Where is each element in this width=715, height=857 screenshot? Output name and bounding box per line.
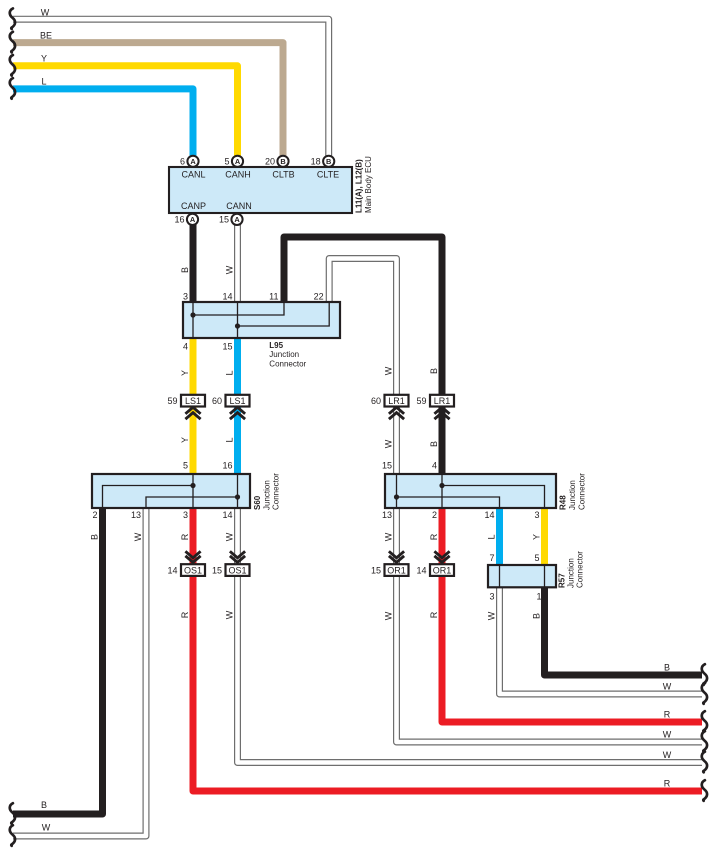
ECU terminal names CANL CANH CLTB CLTE CANP CANN — [181, 169, 339, 211]
wire Y from R48 pin 3 to R57 pin 5 — [541, 508, 548, 565]
svg-text:R: R — [180, 533, 190, 540]
break symbol left, wire W — [10, 8, 15, 29]
wire B from LR1 59 to R48 pin 4 — [439, 407, 446, 475]
wire W from L95 pin 22 to LR1 60 — [329, 259, 396, 396]
wire W from R57 pin 3 to right edge — [500, 587, 703, 694]
break symbol left, wire BE — [10, 32, 15, 53]
svg-text:B: B — [664, 663, 670, 673]
svg-text:3: 3 — [183, 291, 188, 301]
R48 name label Junction Connector (rotated) — [559, 473, 587, 510]
break symbol left, wire B bottom — [10, 803, 15, 824]
svg-text:R57: R57 — [558, 573, 567, 588]
wire W (CANN) ECU pin 15 to L95 pin 14 — [234, 225, 241, 303]
svg-text:OS1: OS1 — [228, 566, 246, 576]
svg-text:16: 16 — [174, 214, 184, 224]
break symbol left, wire L — [10, 78, 15, 99]
svg-text:60: 60 — [212, 396, 222, 406]
wire BE from left edge to ECU pin 20 (CLTB) — [13, 43, 283, 157]
svg-text:W: W — [663, 730, 672, 740]
connector LS1 pin 60 with up chevrons — [212, 395, 250, 419]
svg-text:3: 3 — [534, 510, 539, 520]
svg-text:60: 60 — [371, 396, 381, 406]
svg-text:2: 2 — [432, 510, 437, 520]
wire Y from L95 pin 4 to LS1 59 — [190, 338, 197, 395]
svg-text:S60: S60 — [253, 495, 262, 510]
svg-text:B: B — [41, 800, 47, 810]
svg-text:13: 13 — [131, 510, 141, 520]
svg-text:20: 20 — [265, 156, 275, 166]
svg-text:15: 15 — [219, 214, 229, 224]
ECU pin 6(A) CANL — [187, 156, 198, 167]
svg-text:Junction: Junction — [263, 480, 272, 510]
svg-text:2: 2 — [92, 510, 97, 520]
svg-text:R48: R48 — [559, 495, 568, 510]
wire L from R48 pin 14 to R57 pin 7 — [496, 508, 503, 565]
wire Y from left edge to ECU pin 5 (CANH) — [13, 66, 238, 157]
ECU pin 16(A) CANP — [187, 214, 198, 225]
svg-text:Connector: Connector — [575, 551, 584, 588]
svg-text:W: W — [42, 823, 51, 833]
wire B (CANP) ECU pin 16 to L95 pin 3 — [190, 225, 197, 303]
connector OS1 pin 15 with down chevrons — [212, 551, 250, 576]
svg-text:Y: Y — [532, 534, 542, 540]
svg-text:Main Body ECU: Main Body ECU — [364, 156, 373, 213]
svg-text:A: A — [235, 157, 241, 166]
wire Y from LS1 59 to S60 pin 5 — [190, 407, 197, 475]
svg-text:LR1: LR1 — [434, 396, 451, 406]
svg-text:L: L — [225, 437, 235, 442]
svg-text:13: 13 — [382, 510, 392, 520]
S60 pin numbers 5,16,2,13,3,14 — [92, 461, 232, 521]
svg-text:14: 14 — [222, 510, 232, 520]
svg-text:14: 14 — [416, 566, 426, 576]
svg-text:R: R — [664, 710, 671, 720]
svg-text:CLTE: CLTE — [317, 169, 339, 179]
svg-text:LS1: LS1 — [229, 396, 245, 406]
svg-text:R: R — [429, 533, 439, 540]
ECU pin 18(B) CLTE — [323, 156, 334, 167]
svg-text:W: W — [225, 532, 235, 541]
L95 pin numbers 3,14,11,22,4,15 — [183, 291, 324, 351]
wire W from R48 pin 13 through OR1 15 to right edge — [397, 508, 703, 742]
svg-text:CANN: CANN — [226, 201, 252, 211]
svg-text:6: 6 — [180, 156, 185, 166]
svg-text:A: A — [234, 215, 240, 224]
svg-text:22: 22 — [314, 291, 324, 301]
svg-text:Y: Y — [180, 437, 190, 443]
svg-text:7: 7 — [489, 553, 494, 563]
wire W from S60 pin 14 through OS1 15 to right edge — [238, 508, 703, 763]
ECU pin 5(A) CANH — [232, 156, 243, 167]
break symbol right, wire W — [702, 752, 707, 773]
svg-text:W: W — [133, 532, 143, 541]
svg-text:W: W — [225, 610, 235, 619]
svg-text:15: 15 — [382, 461, 392, 471]
break symbol left, wire W bottom — [10, 825, 15, 846]
svg-text:OR1: OR1 — [433, 566, 452, 576]
svg-text:W: W — [487, 611, 497, 620]
svg-text:A: A — [190, 157, 196, 166]
S60 internal busbars with junction dots — [103, 474, 238, 508]
connector OS1 pin 14 with down chevrons — [167, 551, 205, 576]
R57 pin numbers 7,5,3,1 — [489, 553, 541, 602]
Main Body ECU block L11(A), L12(B) — [169, 167, 352, 213]
svg-text:Y: Y — [180, 370, 190, 376]
svg-text:LR1: LR1 — [388, 396, 405, 406]
svg-text:A: A — [190, 215, 196, 224]
wire B from S60 pin 2 to left edge — [13, 508, 103, 814]
svg-text:Connector: Connector — [577, 473, 586, 510]
S60 name label Junction Connector (rotated) — [253, 473, 281, 510]
svg-text:L95: L95 — [269, 341, 283, 350]
wire W from S60 pin 13 to left edge — [13, 508, 146, 836]
svg-text:B: B — [429, 368, 439, 374]
ECU pin 15(A) CANN — [231, 214, 242, 225]
svg-text:LS1: LS1 — [185, 396, 201, 406]
svg-text:L: L — [41, 77, 46, 87]
svg-text:W: W — [384, 532, 394, 541]
wire W from left edge to ECU pin 18 (CLTE) — [13, 19, 329, 156]
ECU side label L11(A), L12(B) Main Body ECU — [355, 156, 374, 213]
svg-text:1: 1 — [536, 592, 541, 602]
svg-text:B: B — [532, 613, 542, 619]
wire L from left edge to ECU pin 6 (CANL) — [13, 89, 193, 157]
svg-text:L: L — [225, 370, 235, 375]
svg-text:CLTB: CLTB — [272, 169, 294, 179]
junction connector S60 block — [92, 474, 250, 508]
svg-text:14: 14 — [222, 291, 232, 301]
break symbol right, wire B — [702, 664, 707, 685]
svg-text:14: 14 — [484, 510, 494, 520]
svg-text:Junction: Junction — [567, 558, 576, 588]
svg-text:3: 3 — [183, 510, 188, 520]
L95 name label Junction Connector — [269, 341, 306, 369]
junction connector R57 block — [488, 565, 556, 587]
svg-text:OR1: OR1 — [387, 566, 406, 576]
svg-text:59: 59 — [167, 396, 177, 406]
break symbol left, wire Y — [10, 55, 15, 76]
svg-text:L: L — [487, 534, 497, 539]
svg-text:4: 4 — [432, 461, 437, 471]
svg-text:Connector: Connector — [272, 473, 281, 510]
svg-text:16: 16 — [222, 461, 232, 471]
svg-text:15: 15 — [371, 566, 381, 576]
svg-text:5: 5 — [183, 461, 188, 471]
svg-text:L11(A), L12(B): L11(A), L12(B) — [355, 159, 364, 213]
svg-text:5: 5 — [224, 156, 229, 166]
svg-text:B: B — [280, 157, 285, 166]
svg-text:R: R — [429, 611, 439, 618]
connector LR1 pin 60 with up chevrons — [371, 395, 409, 419]
svg-text:W: W — [384, 366, 394, 375]
svg-text:59: 59 — [416, 396, 426, 406]
R48 internal busbars with junction dots — [397, 474, 545, 508]
svg-text:15: 15 — [212, 566, 222, 576]
connector OR1 pin 14 with down chevrons — [416, 551, 454, 576]
wire B from R57 pin 1 to right edge — [545, 587, 703, 675]
svg-text:CANP: CANP — [181, 201, 206, 211]
svg-text:18: 18 — [311, 156, 321, 166]
svg-text:W: W — [663, 682, 672, 692]
svg-text:11: 11 — [269, 291, 278, 301]
connector OR1 pin 15 with down chevrons — [371, 551, 409, 576]
svg-text:B: B — [90, 534, 100, 540]
R57 name label Junction Connector (rotated) — [558, 551, 585, 588]
svg-text:3: 3 — [489, 592, 494, 602]
svg-text:4: 4 — [183, 342, 188, 352]
wire W from LR1 60 to R48 pin 15 — [393, 407, 400, 475]
break symbol right, wire W — [702, 731, 707, 752]
svg-text:R: R — [180, 611, 190, 618]
junction connector L95 block — [183, 302, 340, 338]
L95 internal busbars with junction dots — [193, 302, 329, 338]
break symbol right, wire W — [702, 683, 707, 704]
svg-text:W: W — [384, 611, 394, 620]
svg-text:15: 15 — [222, 342, 232, 352]
svg-text:W: W — [384, 439, 394, 448]
svg-text:Connector: Connector — [269, 360, 306, 369]
ECU pin 20(B) CLTB — [277, 156, 288, 167]
junction connector R48 block — [385, 474, 556, 508]
svg-text:5: 5 — [534, 553, 539, 563]
break symbol right, wire R — [702, 711, 707, 732]
svg-text:Y: Y — [41, 54, 47, 64]
svg-text:W: W — [225, 265, 235, 274]
svg-text:OS1: OS1 — [184, 566, 202, 576]
connector LS1 pin 59 with up chevrons — [167, 395, 205, 419]
svg-text:B: B — [429, 441, 439, 447]
R48 pin numbers 15,4,13,2,14,3 — [382, 461, 540, 521]
R57 internal pass-through lines — [500, 565, 545, 587]
wire R from R48 pin 2 through OR1 14 to right edge — [442, 508, 702, 722]
ECU pin numbers 6,5,20,18,16,15 — [174, 156, 320, 224]
svg-text:14: 14 — [167, 566, 177, 576]
svg-text:CANL: CANL — [181, 169, 205, 179]
wire B from L95 pin 11 to LR1 59 — [284, 237, 442, 395]
svg-text:W: W — [663, 750, 672, 760]
wire R from S60 pin 3 through OS1 14 to right edge — [193, 508, 702, 791]
connector LR1 pin 59 with up chevrons — [416, 395, 454, 419]
wire L from L95 pin 15 to LS1 60 — [234, 338, 241, 395]
break symbol right, wire R — [702, 780, 707, 801]
wire L from LS1 60 to S60 pin 16 — [234, 407, 241, 475]
svg-text:Junction: Junction — [269, 350, 299, 359]
svg-text:B: B — [180, 267, 190, 273]
svg-text:CANH: CANH — [225, 169, 251, 179]
svg-text:Junction: Junction — [568, 480, 577, 510]
svg-text:R: R — [664, 779, 671, 789]
svg-text:W: W — [41, 7, 50, 17]
svg-text:B: B — [326, 157, 331, 166]
svg-text:BE: BE — [40, 30, 52, 40]
